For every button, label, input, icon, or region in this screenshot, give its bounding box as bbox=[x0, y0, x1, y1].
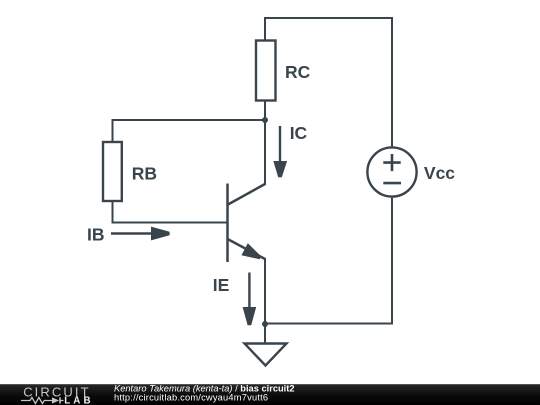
svg-text:RB: RB bbox=[132, 164, 157, 184]
wire RC bottom to node bbox=[264, 101, 266, 121]
wire ground stem bbox=[264, 324, 266, 344]
node top (collector junction) bbox=[262, 117, 268, 123]
resistor RB bbox=[103, 142, 122, 201]
svg-text:LAB: LAB bbox=[64, 396, 93, 405]
wire top: RC top terminal up, across to Vcc bbox=[265, 18, 392, 148]
wire top horizontal from RB to node bbox=[113, 120, 266, 142]
logo diode bbox=[52, 397, 59, 403]
current arrow IC bbox=[273, 126, 287, 177]
svg-text:IE: IE bbox=[213, 275, 230, 295]
svg-text:IC: IC bbox=[290, 123, 308, 143]
transistor Q1 bbox=[228, 184, 266, 263]
ground bbox=[245, 344, 287, 366]
wire Vcc bottom bbox=[391, 197, 393, 324]
transistor emitter arrowhead bbox=[241, 243, 261, 259]
wire bottom horizontal to Vcc minus bbox=[265, 323, 392, 325]
footer bar bbox=[0, 384, 540, 405]
svg-text:Vcc: Vcc bbox=[424, 163, 455, 183]
wire RB bottom to base bbox=[113, 201, 228, 223]
svg-text:RC: RC bbox=[285, 62, 311, 82]
wire emitter down to bottom node bbox=[264, 259, 266, 324]
svg-text:http://circuitlab.com/cwyau4m7: http://circuitlab.com/cwyau4m7vutt6 bbox=[114, 393, 268, 403]
logo squiggle resistor bbox=[21, 397, 52, 403]
current arrow IB bbox=[111, 227, 170, 241]
resistor RC bbox=[256, 41, 276, 101]
node bottom (emitter junction) bbox=[262, 321, 268, 327]
source Vcc bbox=[367, 147, 416, 196]
svg-text:IB: IB bbox=[87, 225, 105, 245]
wire node to collector bbox=[264, 120, 266, 184]
current arrow IE bbox=[243, 273, 257, 326]
